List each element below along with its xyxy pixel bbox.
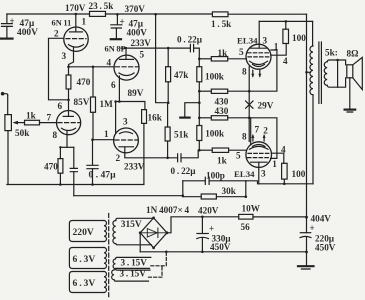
resistor 1k upper EL34 grid: [199, 58, 211, 60]
svg-text:4: 4: [283, 56, 288, 66]
node dot cathode/470: [67, 66, 70, 69]
resistor 23.5k: [90, 11, 106, 16]
svg-text:16k: 16k: [148, 113, 163, 123]
wire plate top rail: [259, 20, 312, 22]
node dot 430 row2 right: [248, 117, 251, 120]
node dot pin3: [114, 100, 117, 103]
svg-text:220V: 220V: [73, 227, 94, 238]
power transformer winding 6.3V a: [69, 248, 104, 269]
svg-text:100: 100: [292, 33, 306, 43]
wire bridge neg down: [139, 233, 141, 252]
svg-text:3 . 15V: 3 . 15V: [121, 258, 148, 268]
svg-text:51k: 51k: [174, 130, 189, 140]
resistor 100k lower: [198, 118, 200, 126]
svg-text:10W: 10W: [242, 204, 261, 214]
svg-text:450V: 450V: [210, 242, 231, 252]
tube 6N11 lower grid dashes: [58, 122, 80, 124]
tube 6N11 lower cathode arc: [62, 128, 76, 130]
node dot 430 row1 right: [248, 90, 251, 93]
tube EL34 lower plate bar: [251, 161, 268, 163]
node dot 430 row2 left: [198, 117, 201, 120]
svg-text:1k: 1k: [217, 156, 228, 166]
wire 6N8P upper cathode pin6: [118, 76, 120, 102]
capacitor 0.47u lower lead: [92, 169, 94, 185]
svg-text:430: 430: [215, 106, 229, 116]
winding 315V top line: [116, 218, 154, 220]
svg-text:400V: 400V: [127, 28, 148, 38]
wire EL34 upper plate lead: [258, 21, 260, 48]
svg-text:8Ω: 8Ω: [347, 49, 359, 59]
output transformer primary top lead: [312, 21, 314, 46]
resistor 1k lower EL34 grid: [198, 149, 212, 151]
tube 6N8P upper plate lead: [125, 48, 127, 59]
resistor 47k: [167, 48, 169, 67]
capacitor 330u lower lead: [201, 238, 203, 252]
svg-text:1: 1: [272, 159, 277, 169]
svg-text:6: 6: [58, 101, 63, 111]
wire 6N11 lower plate to 85V node: [68, 100, 70, 116]
svg-text:430: 430: [215, 97, 229, 107]
wire fb to plate rail: [246, 181, 258, 184]
node 85V dot: [67, 99, 70, 102]
resistor 470 lower: [59, 147, 61, 158]
svg-text:1: 1: [82, 17, 87, 27]
node dot 404V: [305, 216, 308, 219]
EL34 cathode column with X: [248, 67, 250, 142]
bridge corner dots: [139, 231, 142, 234]
tube EL34 lower envelope: [246, 142, 272, 168]
svg-text:1M: 1M: [100, 99, 114, 109]
feedback bus 2: [74, 195, 183, 197]
output transformer primary coil: [310, 46, 313, 95]
resistor 56 10W: [239, 214, 253, 219]
resistor 100k upper: [198, 59, 200, 67]
feedback node L vertical: [182, 181, 184, 197]
tube EL34 lower grid dashes: [248, 153, 271, 157]
wire EL34 lower pin1: [249, 118, 277, 159]
capacitor C1 plates: [2, 24, 13, 27]
secondary top lead: [327, 60, 345, 65]
node dot fb right: [245, 195, 248, 198]
ground bar under C1: [1, 37, 13, 39]
svg-text:EL34: EL34: [234, 169, 255, 179]
svg-text:+: +: [310, 223, 315, 233]
capacitor C1 47u 400V lead: [6, 14, 8, 23]
node 370V junction dot at cap: [116, 13, 119, 16]
ground bar mid: [180, 116, 189, 118]
wire 6N8P lower plate 233V: [125, 147, 178, 158]
wire B+ bus 170V segment: [7, 13, 90, 15]
capacitor 100p wire: [183, 180, 246, 182]
tube 6N8P upper grid dashes: [116, 66, 139, 68]
negative bus: [140, 251, 306, 253]
EL34 lower heater arrows: [253, 135, 264, 141]
wire 6N8P lower grid pin1: [93, 139, 114, 141]
wire 0.22u to 1k lower: [181, 150, 198, 158]
node dot 51k bottom: [166, 157, 169, 160]
center tap stub: [307, 71, 311, 73]
wire cathode node row: [69, 66, 115, 68]
wire plate bottom rail: [259, 183, 313, 185]
EL34 upper heater arrows: [253, 70, 260, 76]
svg-text:23 . 5k: 23 . 5k: [89, 1, 115, 11]
feedback capacitor small: [73, 147, 75, 167]
tube 6N8P upper cathode arc: [119, 73, 134, 76]
bridge internal diode: [142, 232, 166, 234]
wire 233V plate line upper: [121, 47, 190, 49]
svg-text:89V: 89V: [128, 88, 144, 98]
capacitor 0.22u lower plates: [178, 154, 181, 162]
capacitor 0.47u lead: [92, 140, 94, 165]
node dot 100 lower bottom: [283, 183, 286, 186]
node dot 100 ohm top: [285, 20, 288, 23]
svg-text:3: 3: [263, 36, 268, 46]
tube 6N11 upper grid dashes: [66, 38, 86, 40]
ground bar speaker: [345, 108, 356, 110]
svg-text:+: +: [120, 17, 125, 27]
wire EL34 lower cathode pin8: [250, 118, 252, 145]
power transformer winding 6.3V b: [69, 272, 104, 293]
svg-text:233V: 233V: [131, 38, 152, 48]
svg-text:4: 4: [281, 145, 286, 155]
resistor 30k: [183, 196, 201, 198]
svg-text:400V: 400V: [17, 28, 38, 38]
capacitor 220u plates: [300, 232, 310, 234]
winding 3.15V b: [112, 268, 150, 281]
svg-text:8: 8: [242, 132, 247, 142]
feedback node R vertical: [245, 181, 247, 197]
tube 6N11 upper triode envelope: [64, 27, 88, 51]
svg-text:+: +: [209, 224, 214, 234]
pot wiper arrow: [15, 122, 25, 124]
node dot 1k/100k: [198, 58, 201, 61]
node dot grid/1M/0.47u: [91, 138, 94, 141]
ground lead supply: [306, 252, 308, 265]
resistor 100 upper: [285, 21, 287, 29]
svg-text:8: 8: [53, 130, 58, 140]
ground bar under C2: [111, 38, 121, 40]
wire ground stub mid: [185, 103, 200, 117]
svg-text:6N 8P: 6N 8P: [105, 45, 126, 54]
tube 6N8P lower triode envelope: [114, 128, 139, 153]
svg-text:6: 6: [111, 80, 116, 90]
svg-text:100: 100: [292, 169, 306, 179]
node dot pin6: [118, 100, 121, 103]
wire 6N8P lower cathode pin3: [115, 102, 117, 134]
resistor 51k: [167, 103, 169, 127]
svg-text:233V: 233V: [124, 162, 145, 172]
speaker cone: [353, 57, 363, 89]
node dot 470 bottom on bus: [59, 183, 62, 186]
tube 6N8P upper plate bar: [120, 58, 134, 60]
wire EL34 lower plate lead: [258, 162, 260, 183]
bridge rectifier 1N4007x4 diamond: [140, 218, 167, 248]
svg-text:2: 2: [54, 29, 59, 39]
svg-text:3: 3: [123, 117, 128, 127]
capacitor 0.47u plates: [87, 165, 98, 168]
svg-text:2: 2: [263, 126, 268, 136]
svg-text:6N 11: 6N 11: [52, 19, 72, 28]
wire cathode row2: [60, 146, 73, 148]
power transformer winding 220V: [69, 221, 104, 242]
node dot center tap: [305, 71, 308, 74]
svg-text:470: 470: [44, 162, 58, 172]
svg-text:315V: 315V: [121, 220, 142, 230]
wire jack to pot: [7, 95, 9, 114]
svg-text:370V: 370V: [125, 4, 146, 14]
svg-text:0 . 22µ: 0 . 22µ: [177, 35, 203, 45]
svg-text:1: 1: [104, 129, 109, 139]
svg-text:3: 3: [261, 169, 266, 179]
svg-text:7: 7: [255, 125, 260, 135]
svg-text:404V: 404V: [311, 214, 332, 224]
svg-text:6 . 3V: 6 . 3V: [73, 278, 96, 289]
svg-text:1k: 1k: [218, 48, 229, 58]
node dot fb left: [182, 194, 185, 197]
svg-text:2: 2: [116, 153, 121, 163]
secondary bottom lead: [327, 78, 345, 87]
svg-text:5: 5: [140, 50, 145, 60]
wire 16k to ground bus: [143, 123, 145, 184]
svg-text:47k: 47k: [174, 70, 189, 80]
winding 315V coil: [113, 221, 116, 244]
wire pot bottom to ground bus: [7, 131, 9, 185]
resistor 430 lower: [199, 117, 211, 119]
svg-text:3: 3: [62, 51, 67, 61]
svg-text:5: 5: [239, 47, 244, 57]
svg-text:5k:: 5k:: [325, 48, 338, 58]
capacitor C1 lower lead: [6, 26, 8, 37]
svg-text:6 . 3V: 6 . 3V: [73, 254, 96, 265]
wire 100k chain mid: [198, 91, 200, 118]
svg-text:100k: 100k: [205, 129, 225, 139]
output transformer primary bottom lead: [312, 95, 314, 184]
svg-text:100p: 100p: [206, 171, 225, 181]
node 170V junction dot: [75, 13, 78, 16]
svg-text:0 . 47µ: 0 . 47µ: [89, 170, 117, 181]
wire B+ bus right segment: [228, 13, 307, 15]
tube 6N11 lower plate bar: [63, 115, 73, 117]
svg-text:56: 56: [241, 222, 251, 232]
capacitor C2 lower lead: [115, 28, 117, 38]
resistor 100 lower: [282, 163, 288, 179]
dashed heater return: [149, 252, 167, 277]
svg-text:1 . 5k: 1 . 5k: [211, 19, 232, 29]
wire EL34 upper pin1: [249, 50, 277, 91]
ground bar supply: [298, 265, 314, 267]
node dot plate stem: [125, 47, 127, 49]
wire 6N11 upper plate lead: [75, 14, 77, 32]
tube EL34 lower cathode arcs: [250, 145, 269, 150]
svg-text:EL34: EL34: [237, 36, 258, 46]
power transformer core dashed: [108, 214, 110, 299]
wire 6N11 lower cathode: [66, 131, 68, 147]
node dot heater ct: [165, 251, 168, 254]
output transformer secondary coil: [324, 62, 327, 86]
node dot 102.7: [198, 101, 201, 104]
tube 6N11 upper cathode arc: [69, 45, 84, 48]
speaker box: [347, 65, 353, 78]
resistor 1k input: [25, 120, 40, 125]
capacitor 100p plates: [205, 177, 209, 184]
resistor 430 upper: [199, 90, 211, 92]
resistor 1.5k: [212, 12, 228, 17]
winding 3.15V a: [113, 257, 151, 270]
wire bridge + to 420V: [167, 217, 239, 233]
node 370V junction dot at feed: [154, 13, 157, 16]
svg-text:1: 1: [274, 42, 279, 52]
tube 6N8P lower cathode arc: [120, 132, 133, 134]
node dot 0.47u on bus: [91, 183, 94, 186]
capacitor 0.22u upper plates: [190, 44, 193, 51]
node dot 330u top: [201, 216, 204, 219]
svg-text:450V: 450V: [315, 243, 336, 253]
resistor 470 upper: [68, 67, 70, 75]
svg-text:170V: 170V: [65, 3, 86, 13]
svg-text:+: +: [10, 16, 15, 26]
svg-text:1k: 1k: [26, 111, 37, 121]
node dot 47k/51k: [167, 101, 170, 104]
node dot 430 row1 left: [198, 90, 201, 93]
tube EL34 upper plate bar: [251, 47, 267, 49]
wire B+ bus 370V segment: [106, 13, 213, 15]
svg-text:4: 4: [107, 58, 112, 68]
secondary mid vertical: [337, 60, 339, 87]
ground bus 1: [7, 184, 144, 186]
capacitor C2 plates: [111, 25, 122, 28]
tube 6N11 lower triode envelope: [57, 111, 81, 135]
tube 6N8P upper triode envelope: [114, 55, 139, 80]
wire 6N11 upper cathode pin3: [69, 47, 74, 67]
svg-text:7: 7: [47, 113, 52, 123]
input jack: [1, 92, 5, 96]
B+ center tap vertical: [306, 14, 308, 217]
resistor 16k: [142, 110, 147, 124]
svg-text:5: 5: [236, 151, 241, 161]
svg-text:470: 470: [77, 77, 91, 87]
svg-text:50k: 50k: [15, 128, 30, 138]
svg-text:100k: 100k: [205, 72, 225, 82]
svg-text:3 . 15V: 3 . 15V: [120, 269, 147, 279]
svg-text:8: 8: [242, 67, 247, 77]
svg-text:1N 4007× 4: 1N 4007× 4: [146, 205, 190, 215]
tube EL34 upper grid dashes: [248, 53, 271, 57]
svg-text:0 . 22µ: 0 . 22µ: [171, 166, 197, 176]
tube 6N8P lower grid dashes: [115, 139, 138, 141]
winding 315V bottom line: [116, 244, 152, 245]
capacitor C2 47u 400V lead: [116, 14, 118, 24]
wire cathode rail to 16k: [116, 102, 145, 110]
node dot 47k top: [167, 47, 170, 50]
wire EL34 lower pin4 screen: [272, 153, 284, 163]
tube EL34 upper envelope: [246, 44, 271, 69]
resistor 1M: [92, 67, 94, 97]
wire B+ feed drop: [156, 14, 169, 102]
node dot 470 lower top: [59, 146, 61, 148]
tube EL34 upper cathode arcs: [250, 61, 268, 66]
transformer core lines: [319, 42, 322, 103]
node dot 1M top: [92, 66, 95, 69]
wire 6N11 upper grid (pin 2): [49, 38, 69, 100]
potentiometer 50k: [5, 115, 11, 131]
capacitor 330u lead: [201, 217, 203, 233]
node dot 330u bottom: [201, 251, 204, 254]
tube 6N11 upper plate bar: [70, 31, 83, 33]
svg-text:420V: 420V: [198, 206, 219, 216]
capacitor 220u leads: [306, 217, 308, 252]
node dot neg bus right: [305, 251, 308, 254]
speaker ground lead: [349, 78, 351, 109]
tube 6N8P lower plate bar: [119, 146, 134, 148]
wire 0.22u to grid corner: [194, 48, 200, 59]
svg-text:29V: 29V: [258, 101, 274, 111]
node dot 1k2/100k2: [198, 149, 201, 152]
svg-text:85V: 85V: [74, 97, 90, 107]
capacitor 330u plates: [197, 233, 208, 235]
svg-text:30k: 30k: [222, 186, 237, 196]
